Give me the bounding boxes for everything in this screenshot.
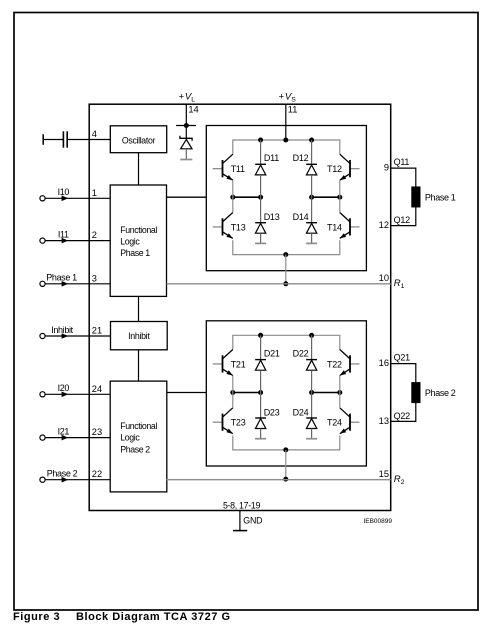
figure caption [13,611,231,623]
input Phase 2 (pin 22) [40,469,110,483]
svg-text:D22: D22 [293,348,309,358]
svg-text:D12: D12 [293,153,309,163]
node top rail / pin11 [283,138,288,143]
diode D13 [255,197,280,243]
svg-text:9: 9 [384,163,389,173]
svg-text:Oscillator: Oscillator [122,136,156,146]
oscillator block [110,126,166,153]
transistor T21 [213,350,246,393]
input I10 (pin 1) [40,187,110,201]
pin 11 lead [285,104,287,140]
svg-text:Phase 2: Phase 2 [47,469,78,479]
capacitor C-osc at pin 4 [43,131,110,147]
wire R2 sense [167,479,391,481]
node T21/T23 junction [230,390,235,395]
transistor T22 [327,350,359,393]
svg-text:Phase 1: Phase 1 [46,273,77,283]
emitter bottom rail phase 1 [233,240,340,254]
svg-text:T11: T11 [231,164,245,174]
svg-text:Phase 1: Phase 1 [120,248,150,258]
svg-text:14: 14 [188,104,198,114]
node VL junction [184,123,189,128]
node R1 junction [283,281,288,286]
winding load phase 1 [412,187,420,207]
svg-text:Q12: Q12 [394,215,411,225]
pin 14 lead [185,104,187,125]
svg-text:D23: D23 [264,407,280,417]
svg-text:Inhibit: Inhibit [128,331,150,341]
emitter bottom rail phase 2 [233,436,340,450]
transistor T24 [327,393,359,434]
svg-text:22: 22 [92,469,102,479]
wire phase 1 output loop [391,168,416,226]
wire FL2 output to bridge [167,392,207,394]
svg-text:Phase 1: Phase 1 [425,192,456,202]
inhibit block [111,322,168,350]
output bridge box phase 1 [206,126,366,271]
svg-text:Logic: Logic [120,433,140,443]
VS top rail phase 1 [233,140,340,154]
svg-text:I10: I10 [58,187,70,197]
wire phase 2 output loop [391,364,416,422]
svg-text:Phase 2: Phase 2 [425,388,456,398]
functional logic phase 1 block [110,185,166,296]
svg-text:Inhibit: Inhibit [51,325,73,335]
node D11/D13 junction [258,195,263,200]
input Inhibit (pin 21) [40,325,110,339]
diode D24 [293,393,317,439]
svg-text:5-8, 17-19: 5-8, 17-19 [223,501,261,511]
functional logic phase 2 block [110,381,167,492]
input I11 (pin 2) [40,229,110,243]
svg-text:T12: T12 [327,164,342,174]
transistor T23 [213,393,246,434]
node D12/D14 junction [309,195,314,200]
svg-text:I20: I20 [58,383,70,393]
center tap phase 2 to R2 [285,450,287,479]
svg-text:D21: D21 [264,348,280,358]
svg-text:T14: T14 [327,222,342,232]
svg-text:15: 15 [379,469,389,479]
node top rail D21 [258,333,263,338]
diode D14 [293,197,317,243]
svg-text:24: 24 [92,384,102,394]
diode D22 [293,335,317,392]
svg-text:I11: I11 [58,229,69,239]
diode D21 [255,335,280,392]
ground pin 5-8,17-19 [233,511,247,531]
mid rail left phase 2 [233,392,261,394]
node T11/T13 junction [230,195,235,200]
center tap phase 1 to R1 [285,255,287,284]
input Phase 1 (pin 3) [40,273,110,287]
transistor T14 [327,197,359,238]
mid rail right phase 2 [312,392,340,394]
input I21 (pin 23) [40,426,110,440]
svg-text:Figure 3: Figure 3 [13,611,60,623]
svg-text:Phase 2: Phase 2 [120,444,150,454]
node top rail D22 [309,333,314,338]
svg-text:11: 11 [288,104,298,114]
output bridge box phase 2 [206,321,366,466]
node D22/D24 junction [309,390,314,395]
zener diode Z1 (VL clamp) [180,126,192,160]
node D21/D23 junction [258,390,263,395]
svg-text:1: 1 [92,188,97,198]
svg-text:21: 21 [92,326,102,336]
svg-text:T22: T22 [327,359,342,369]
svg-text:D11: D11 [264,153,279,163]
svg-text:T13: T13 [231,222,246,232]
svg-text:I21: I21 [58,426,70,436]
transistor T13 [213,197,246,238]
svg-text:16: 16 [379,358,389,368]
mid rail right phase 1 [312,196,340,198]
diode D11 [255,140,279,197]
svg-text:Q21: Q21 [394,352,411,362]
svg-text:Functional: Functional [120,421,157,431]
svg-text:3: 3 [92,273,97,283]
svg-text:IEB00899: IEB00899 [363,518,392,525]
svg-text:T23: T23 [231,418,246,428]
node R2 junction [283,477,288,482]
svg-text:Block Diagram TCA 3727 G: Block Diagram TCA 3727 G [76,611,231,623]
mid rail left phase 1 [233,196,261,198]
svg-text:Functional: Functional [120,225,157,235]
wire FL1 output to bridge [167,196,207,198]
svg-text:10: 10 [379,273,389,283]
input I20 (pin 24) [40,383,110,397]
node T12/T14 junction [337,195,342,200]
wire FL1 to inhibit [138,296,140,321]
VS top rail phase 2 [233,335,340,349]
node bottom rail center tap phase 2 [283,447,288,452]
svg-text:D13: D13 [264,212,280,222]
node T22/T24 junction [337,390,342,395]
node top rail D12 [309,138,314,143]
diode D23 [255,393,280,439]
IC boundary TCA3727 [89,104,391,510]
svg-text:23: 23 [92,427,102,437]
svg-text:Logic: Logic [120,237,140,247]
transistor T12 [327,154,359,197]
diode D12 [293,140,317,197]
svg-text:D24: D24 [293,407,309,417]
svg-text:Q11: Q11 [394,157,410,167]
svg-text:2: 2 [92,230,97,240]
svg-text:T21: T21 [231,359,246,369]
svg-text:Q22: Q22 [394,411,411,421]
svg-text:D14: D14 [293,212,309,222]
svg-text:T24: T24 [327,418,342,428]
svg-text:13: 13 [379,416,389,426]
node top rail D11 [258,138,263,143]
svg-text:4: 4 [92,129,97,139]
wire osc to FL1 [138,153,140,185]
transistor T11 [213,154,245,197]
wire R1 sense [167,283,391,285]
svg-text:GND: GND [243,515,262,525]
wire inhibit to FL2 [138,350,140,381]
winding load phase 2 [412,383,420,403]
node bottom rail center tap phase 1 [283,252,288,257]
svg-text:12: 12 [379,220,389,230]
